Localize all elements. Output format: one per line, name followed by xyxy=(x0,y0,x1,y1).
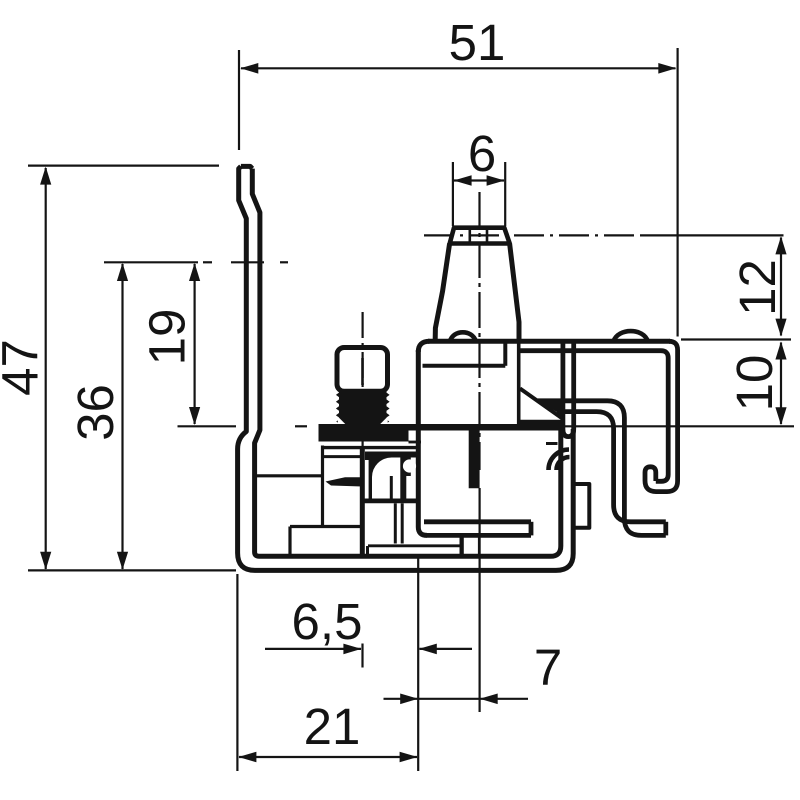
body right wall channel (upper tongue) xyxy=(563,343,574,437)
drill axis line left (solid part) xyxy=(104,261,198,263)
drill axis centerline dash-dot xyxy=(203,261,212,263)
washer black band xyxy=(319,424,565,431)
elbow mouth bite white xyxy=(403,459,416,472)
collar ticks xyxy=(468,228,471,243)
dimension 51 line xyxy=(241,67,676,69)
inner step line under top edge xyxy=(423,364,506,368)
step box top xyxy=(290,525,362,528)
back plate right edge and body inner bottom xyxy=(252,169,561,557)
dimension 12 arrows xyxy=(775,236,786,254)
svg-text:21: 21 xyxy=(304,698,361,755)
dimension 10 arrows xyxy=(775,342,786,360)
dimension 51 arrow right xyxy=(658,63,676,74)
body right wall tab xyxy=(573,484,589,528)
dimension 36 arrows xyxy=(117,263,128,281)
mounting plane extension left xyxy=(178,425,237,427)
back plate outer contour and body outline xyxy=(238,166,574,570)
dimension 6,5 arrow left (outside) xyxy=(343,644,361,655)
plate line second xyxy=(365,453,417,457)
small ledge line xyxy=(546,442,558,445)
dimension 21 arrows xyxy=(238,752,256,763)
svg-text:6: 6 xyxy=(468,125,496,182)
sheet2 J hook outer xyxy=(645,341,678,491)
sheet1 hook outer (top surface to right foot) xyxy=(538,401,666,536)
dimension 19 arrows xyxy=(189,263,200,281)
bottom shell curl inner arc xyxy=(557,457,570,470)
dimension 47 arrows xyxy=(40,167,51,185)
cone left side xyxy=(435,244,449,340)
svg-text:12: 12 xyxy=(729,259,786,316)
cone centerline xyxy=(478,192,480,470)
body top edge extension right xyxy=(681,338,791,340)
mounting plane small dash xyxy=(295,425,307,427)
internal bar left (body foot) xyxy=(424,519,531,524)
svg-text:19: 19 xyxy=(139,309,196,366)
dimension 7 line between xyxy=(418,698,480,700)
spring spear black xyxy=(326,477,363,486)
cone right side xyxy=(510,244,519,342)
screw head xyxy=(337,348,388,392)
wedge box left edge xyxy=(517,341,521,424)
bottom center line xyxy=(368,544,460,547)
bottom black blob xyxy=(460,537,464,557)
bottom short vertical xyxy=(478,535,481,555)
plate small rect xyxy=(323,455,362,458)
svg-text:6,5: 6,5 xyxy=(292,593,363,650)
dimension 47 extension line top xyxy=(28,165,219,167)
elbow base black band xyxy=(361,499,417,504)
screw knurl black xyxy=(339,390,387,425)
collar trapezoid xyxy=(450,228,510,244)
dimension 7 arrow left (outside) xyxy=(400,694,418,705)
screw lower shaft thick line xyxy=(360,446,365,555)
dimension 19 line xyxy=(194,264,196,424)
dimension 51 arrow left xyxy=(240,63,258,74)
black vertical bar on cone axis xyxy=(469,430,480,489)
dimension 7 tail left xyxy=(384,698,418,700)
screw centerline xyxy=(362,312,364,463)
left inner box right edge xyxy=(321,446,324,527)
left inner box top xyxy=(257,474,323,477)
wedge black fill xyxy=(538,401,564,420)
washer bottom thin line xyxy=(409,441,422,444)
svg-text:47: 47 xyxy=(0,339,49,396)
body top edge xyxy=(428,339,670,344)
sheet1 foot cap xyxy=(663,522,668,536)
top tab bump left xyxy=(450,332,476,341)
dimension 36 line xyxy=(121,264,123,569)
internal bar right cap xyxy=(529,522,534,536)
dimension 21 line xyxy=(239,756,417,758)
plate line under washer xyxy=(321,446,417,449)
dimension 51 extension line right xyxy=(676,48,678,337)
body left wall xyxy=(418,341,429,352)
dimension 6 line xyxy=(454,179,504,181)
elbow mouth cap black xyxy=(400,458,411,477)
dimension 7 arrow right (outside) xyxy=(480,694,498,705)
collar axis line dash-dot xyxy=(424,234,640,236)
screw head centerline dash xyxy=(361,358,364,385)
dimension 6,5 arrow right (outside) xyxy=(419,644,437,655)
dimension 21 extension line right xyxy=(417,558,419,771)
elbow inner edge line xyxy=(390,476,393,499)
elbow corner fill black xyxy=(365,452,417,499)
wedge diagonal xyxy=(520,389,564,420)
top tab bump right xyxy=(614,331,648,341)
sheet1 hook inner xyxy=(557,412,666,522)
dimension 10 line xyxy=(780,343,782,425)
wedge bottom band black xyxy=(520,420,565,425)
cone axis extension (vertical) xyxy=(479,488,481,712)
dimension 12 line xyxy=(780,238,782,336)
screw axis extension bottom xyxy=(361,644,363,668)
svg-text:51: 51 xyxy=(449,14,506,71)
dimension 6 extension lines xyxy=(452,162,454,226)
inner step vertical xyxy=(503,344,507,366)
dimension 6,5 tail right xyxy=(420,648,473,650)
washer black body xyxy=(319,430,409,442)
shaft lines below band xyxy=(394,503,397,543)
baseline extension left xyxy=(28,569,236,571)
dimension 7 tail right xyxy=(480,698,528,700)
svg-text:36: 36 xyxy=(67,384,124,441)
bottom shell curl outer arc xyxy=(549,450,570,471)
back plate top cap xyxy=(241,166,252,168)
svg-text:10: 10 xyxy=(726,355,783,412)
svg-text:7: 7 xyxy=(534,639,562,696)
dimension 51 extension line left xyxy=(238,50,240,150)
collar axis extension right solid xyxy=(640,234,784,236)
sheet2 J hook inner xyxy=(521,351,669,482)
dimension 47 line xyxy=(45,168,47,569)
step box left edge xyxy=(288,527,291,555)
mounting plane extension right xyxy=(556,425,794,427)
dimension 21 extension line left xyxy=(236,574,238,771)
elbow right bar black xyxy=(400,476,406,499)
dimension 6,5 tail left xyxy=(265,648,361,650)
dimension 6 arrows xyxy=(454,175,472,186)
